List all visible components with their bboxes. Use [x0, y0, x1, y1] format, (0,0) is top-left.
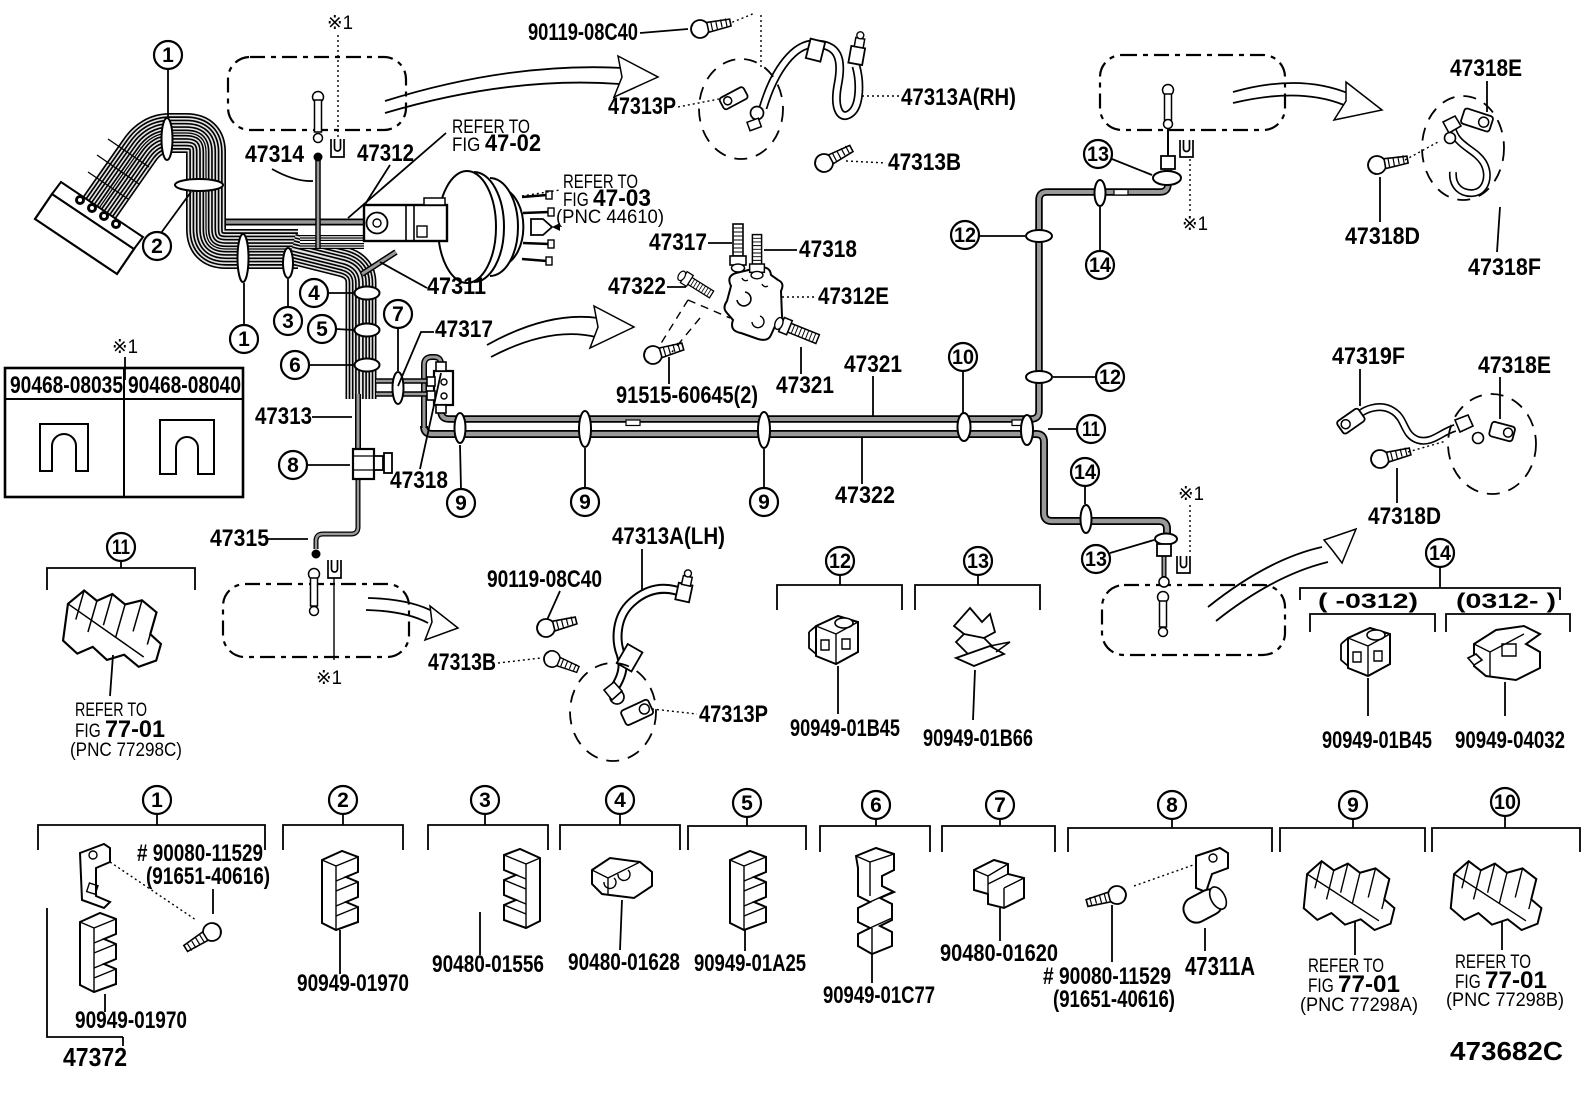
svg-text:90949-01970: 90949-01970 [75, 1007, 187, 1034]
svg-text:47315: 47315 [210, 525, 269, 552]
svg-text:※1: ※1 [327, 13, 353, 34]
svg-text:11: 11 [1082, 418, 1100, 441]
svg-text:47313: 47313 [255, 403, 312, 430]
svg-text:90949-01B45: 90949-01B45 [1322, 727, 1432, 754]
svg-text:47318E: 47318E [1450, 55, 1522, 82]
svg-text:2: 2 [151, 235, 163, 258]
svg-text:12: 12 [954, 224, 976, 247]
svg-text:47321: 47321 [776, 372, 834, 399]
svg-text:90468-08040: 90468-08040 [128, 372, 241, 399]
svg-text:47313A(RH): 47313A(RH) [901, 84, 1016, 111]
svg-text:14: 14 [1074, 461, 1096, 484]
svg-text:(PNC 77298C): (PNC 77298C) [70, 740, 182, 761]
svg-text:8: 8 [287, 454, 299, 477]
svg-text:91515-60645(2): 91515-60645(2) [616, 382, 758, 409]
svg-text:47318D: 47318D [1368, 503, 1441, 530]
svg-text:90949-04032: 90949-04032 [1455, 727, 1565, 754]
svg-text:1: 1 [151, 789, 163, 812]
svg-text:90949-01C77: 90949-01C77 [823, 982, 935, 1009]
svg-text:1: 1 [238, 328, 250, 351]
svg-text:9: 9 [758, 491, 770, 514]
svg-text:90949-01B45: 90949-01B45 [790, 715, 900, 742]
svg-text:5: 5 [741, 792, 753, 815]
svg-text:47322: 47322 [608, 273, 666, 300]
svg-text:( -0312): ( -0312) [1318, 590, 1418, 613]
svg-text:90949-01A25: 90949-01A25 [694, 950, 806, 977]
svg-text:※1: ※1 [316, 668, 342, 689]
svg-text:※1: ※1 [112, 337, 138, 358]
svg-text:47372: 47372 [63, 1042, 127, 1072]
svg-text:9: 9 [579, 491, 591, 514]
svg-text:90480-01556: 90480-01556 [432, 951, 544, 978]
svg-text:90949-01B66: 90949-01B66 [923, 725, 1033, 752]
svg-text:5: 5 [316, 318, 328, 341]
svg-text:FIG 77-01: FIG 77-01 [1308, 971, 1400, 998]
svg-text:47318: 47318 [390, 467, 448, 494]
svg-text:47318E: 47318E [1478, 352, 1551, 379]
svg-text:7: 7 [392, 303, 404, 326]
svg-text:47317: 47317 [435, 316, 493, 343]
svg-text:1: 1 [162, 44, 174, 67]
svg-text:47318F: 47318F [1468, 254, 1541, 281]
svg-text:14: 14 [1089, 254, 1111, 277]
svg-text:(0312- ): (0312- ) [1456, 590, 1556, 613]
svg-text:47313B: 47313B [888, 149, 961, 176]
svg-text:47322: 47322 [835, 482, 895, 509]
svg-text:90119-08C40: 90119-08C40 [487, 566, 602, 593]
svg-text:47313B: 47313B [428, 649, 496, 676]
svg-text:FIG 77-01: FIG 77-01 [75, 716, 165, 743]
svg-text:47313P: 47313P [699, 701, 768, 728]
svg-text:47313P: 47313P [608, 93, 676, 120]
svg-text:90468-08035: 90468-08035 [10, 372, 123, 399]
svg-text:9: 9 [455, 492, 467, 515]
svg-text:13: 13 [967, 550, 989, 573]
svg-text:47317: 47317 [649, 229, 707, 256]
svg-text:(91651-40616): (91651-40616) [1053, 986, 1175, 1013]
svg-text:4: 4 [614, 789, 626, 812]
svg-text:7: 7 [994, 794, 1006, 817]
svg-text:473682C: 473682C [1450, 1036, 1563, 1066]
svg-text:47318D: 47318D [1345, 223, 1420, 250]
svg-text:※1: ※1 [1178, 484, 1204, 505]
svg-text:47313A(LH): 47313A(LH) [612, 523, 725, 550]
svg-text:90949-01970: 90949-01970 [297, 970, 409, 997]
svg-text:8: 8 [1166, 794, 1178, 817]
svg-text:9: 9 [1347, 794, 1359, 817]
svg-text:13: 13 [1085, 548, 1107, 571]
svg-text:10: 10 [952, 346, 974, 369]
svg-text:2: 2 [337, 789, 349, 812]
svg-text:3: 3 [479, 789, 491, 812]
svg-text:14: 14 [1429, 542, 1451, 565]
svg-text:FIG 47-02: FIG 47-02 [452, 130, 541, 157]
svg-text:12: 12 [829, 550, 851, 573]
svg-text:6: 6 [289, 354, 301, 377]
svg-text:90119-08C40: 90119-08C40 [528, 19, 638, 46]
svg-text:90480-01628: 90480-01628 [568, 949, 680, 976]
svg-text:※1: ※1 [1182, 214, 1208, 235]
svg-text:4: 4 [308, 282, 320, 305]
svg-text:(91651-40616): (91651-40616) [146, 863, 270, 890]
svg-text:47312: 47312 [357, 140, 414, 167]
svg-text:47312E: 47312E [818, 283, 889, 310]
svg-text:10: 10 [1494, 791, 1516, 814]
svg-text:47314: 47314 [245, 141, 305, 168]
svg-text:6: 6 [870, 794, 882, 817]
svg-text:12: 12 [1099, 366, 1121, 389]
svg-text:3: 3 [282, 310, 294, 333]
svg-text:(PNC 77298A): (PNC 77298A) [1300, 995, 1418, 1016]
svg-text:13: 13 [1087, 143, 1109, 166]
svg-text:47321: 47321 [844, 351, 902, 378]
svg-text:90480-01620: 90480-01620 [940, 940, 1058, 967]
svg-text:11: 11 [112, 536, 130, 559]
svg-text:47319F: 47319F [1332, 343, 1405, 370]
svg-text:47311A: 47311A [1185, 951, 1255, 981]
svg-text:47311: 47311 [427, 273, 486, 300]
svg-text:(PNC 77298B): (PNC 77298B) [1446, 990, 1564, 1011]
svg-text:47318: 47318 [799, 236, 857, 263]
svg-text:(PNC 44610): (PNC 44610) [556, 207, 664, 228]
